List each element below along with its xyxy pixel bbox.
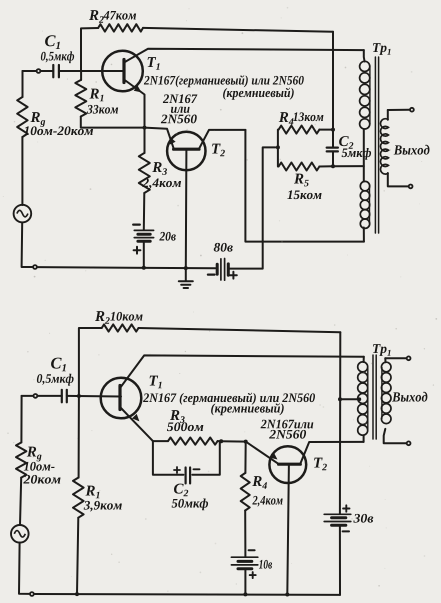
wire: terminal to C1	[41, 70, 53, 72]
node: T1 emitter / R1 / R3 / T2 junction	[143, 126, 147, 130]
label 80v minus	[208, 274, 215, 276]
wire: R3 node to R4 node	[221, 440, 246, 442]
wire: tap from C2/R5 node to transformer primary	[333, 165, 364, 167]
label C1	[45, 35, 60, 49]
wire: terminal to C1 (bottom)	[38, 395, 62, 397]
label Vykhod (top)	[394, 145, 430, 155]
resistor R5 15kom	[279, 163, 320, 171]
ground symbol (top circuit)	[185, 268, 187, 281]
label 20v value	[159, 232, 175, 241]
transformer Tr1 (bottom) core	[372, 355, 374, 439]
transistor T1 (top) circle	[102, 51, 143, 92]
label C2 (top)	[339, 136, 353, 149]
transistor T2 base ground line	[185, 149, 188, 268]
label 20v plus	[134, 247, 141, 254]
label C1 (bottom)	[51, 358, 66, 372]
transistor T2 collector lead to vertical	[199, 130, 246, 149]
transistor T2 base bar (horizontal)	[174, 148, 199, 151]
label C1 value 0,5mkf	[41, 51, 74, 63]
transistor T1 (bottom) base bar	[118, 386, 121, 410]
wire: bottom rail of top circuit	[38, 267, 216, 268]
label R1 (bottom)	[85, 486, 99, 499]
label R4 value 2,4kom (bottom)	[252, 496, 282, 507]
label C2 minus (bottom)	[194, 468, 200, 470]
terminal: output top (top circuit)	[410, 108, 414, 112]
transistor T1 collector lead to rail	[124, 49, 364, 63]
label 30v minus	[343, 530, 349, 532]
battery B1 20v plates	[134, 229, 153, 231]
capacitor C1 (bottom) plates	[61, 390, 63, 403]
node: R4/C2/R2 junction	[331, 128, 335, 132]
node: R4/R5 left mid junction	[276, 145, 280, 149]
label C2 plus (bottom)	[174, 467, 180, 473]
label T2 block ili	[171, 107, 190, 113]
label R4 (top)	[279, 112, 294, 125]
wire: left column top corner down to Rg	[22, 71, 24, 97]
label Rg	[30, 112, 45, 127]
wire: tap to transformer primary (bottom)	[340, 398, 359, 400]
label T1 (top)	[148, 57, 160, 70]
terminal: bottom rail (bottom circuit)	[30, 592, 34, 596]
label R3 (top)	[152, 162, 167, 175]
transistor T1 (bottom) collector lead to rail	[120, 355, 364, 388]
resistor R2 47kom rail + zigzag	[81, 28, 98, 71]
label 10v value	[259, 560, 272, 569]
battery B4 30v plates	[324, 513, 351, 515]
transformer Tr1 (top) core	[374, 57, 376, 233]
wire: R2 right vertical down to R4 node	[332, 32, 334, 130]
label T2 (bottom)	[314, 458, 327, 471]
label 30v plus	[343, 505, 349, 511]
node: 20v battery at rail	[142, 266, 146, 270]
node: 10v battery at rail	[243, 592, 247, 596]
label 20v minus	[133, 224, 140, 226]
label R1 value 3,9kom	[84, 501, 122, 512]
label 80v plus	[230, 272, 237, 279]
transistor T2 (top) circle	[167, 132, 205, 170]
wire: R4/R5 left connector	[277, 130, 279, 167]
wire: secondary top lead to terminal	[388, 109, 410, 111]
transformer Tr1 (top) primary connector with tap	[363, 130, 365, 182]
label 10v minus	[249, 549, 255, 551]
label R3 value 500om	[167, 422, 203, 431]
node: tap at primary winding	[358, 397, 362, 401]
transformer Tr1 (top) secondary winding	[387, 110, 389, 120]
resistor R2 10kom rail (bottom)	[79, 328, 102, 396]
label T1 type line1 (bottom)	[143, 393, 315, 405]
label C2 value 50mkf	[172, 498, 208, 510]
label 80v value	[214, 243, 233, 252]
label T2 (top)	[212, 144, 225, 157]
transformer Tr1 (top) primary lower winding	[369, 186, 371, 224]
wire: 80v battery plus up to R4/R5 node	[228, 147, 275, 268]
wire: AC source to bottom rail corner	[19, 543, 29, 594]
transistor T2 (bottom) collector lead	[300, 442, 364, 464]
wire: secondary top lead to terminal (bottom)	[385, 357, 406, 359]
node: R5/C2 junction	[331, 164, 335, 168]
transistor T1 (bottom) circle	[101, 378, 142, 419]
wire: 10v battery to rail	[244, 569, 246, 595]
transformer Tr1 (top) primary upper winding	[363, 50, 366, 61]
transistor T2 (bottom) circle	[269, 446, 306, 483]
terminal: bottom-left on ground rail (top circuit)	[33, 265, 37, 269]
label R1 value 33kom	[87, 105, 118, 114]
label R2 (bottom)	[95, 311, 110, 324]
transistor T2 (bottom) base bar (horizontal)	[279, 463, 301, 466]
label R1	[89, 89, 103, 102]
label R2 value 47kom	[103, 11, 136, 20]
label Tr1 (top)	[373, 43, 391, 55]
terminal: output top (bottom circuit)	[407, 356, 411, 360]
transistor T2 (bottom) emitter lead with arrow (PNP)	[246, 442, 279, 465]
wire: input lead to terminal (top circuit)	[23, 70, 36, 72]
terminal: output bottom (bottom circuit)	[407, 441, 411, 445]
transistor T1 base bar	[122, 60, 125, 83]
capacitor C2 50mkf loop (bottom)	[153, 441, 184, 475]
label R2	[89, 10, 104, 23]
transformer Tr1 (bottom) primary winding	[363, 357, 365, 362]
resistor R4 13kom	[279, 126, 320, 134]
terminal: output bottom (top circuit)	[409, 185, 413, 189]
transistor T1 (bottom) emitter lead with arrow	[120, 407, 153, 441]
resistor R1 33kom (base bias)	[80, 71, 82, 80]
label R5 value 15kom	[287, 190, 321, 199]
label T2 block 2N560	[161, 115, 197, 124]
label C1 value (bottom)	[37, 374, 74, 386]
AC source G2 (bottom signal generator)	[11, 525, 29, 543]
label Rg value 10om-20kom	[24, 126, 93, 135]
label Vykhod (bottom)	[392, 392, 427, 402]
resistor R3 2,4kom (top)	[144, 128, 146, 153]
battery B3 10v plates	[231, 556, 257, 558]
wire: Rg to AC source (bottom)	[20, 478, 21, 525]
capacitor C1 (0,5mkf) plates	[52, 65, 54, 77]
wire: T2 collector down and right to transformer primary bottom	[245, 130, 364, 242]
transistor T2 (bottom) base line to rail	[287, 464, 289, 594]
capacitor C2 5mkf (top)	[332, 130, 334, 148]
label Rg value line1	[24, 462, 55, 471]
label R3 (bottom)	[170, 410, 185, 423]
label Rg value line2	[23, 475, 60, 484]
node: R3 right / C2 junction	[219, 439, 223, 443]
label C2 value 5mkf	[342, 148, 371, 160]
transistor T1 emitter lead with arrow	[124, 80, 145, 128]
wire: 30v supply vertical (rail corner to battery)	[339, 332, 341, 514]
label R3 value 2,4kom	[142, 178, 181, 189]
node: R4 top junction	[244, 440, 248, 444]
wire: Rg to AC source	[21, 137, 23, 205]
label Rg (bottom)	[27, 447, 42, 462]
wire: left column corner to Rg (bottom)	[20, 396, 22, 443]
wire: 30v battery to bottom rail corner	[339, 525, 341, 595]
terminal: input top-left	[37, 69, 41, 73]
label 30v value	[353, 514, 373, 523]
wire: input lead to terminal (bottom circuit)	[22, 395, 33, 397]
node: C1/R1/R2 base junction (bottom)	[77, 394, 81, 398]
resistor R3 500om (bottom)	[153, 440, 168, 442]
wire: C1 to T1 base	[59, 70, 123, 72]
resistor Rg (top) zigzag	[17, 97, 27, 137]
label T1 (bottom)	[150, 376, 162, 389]
label C2 (bottom)	[174, 484, 188, 497]
wire: bottom rail (bottom circuit)	[35, 593, 341, 596]
label 10v plus	[250, 572, 256, 578]
node: T2 base at rail	[285, 593, 289, 597]
node: R1 at bottom rail	[75, 592, 79, 596]
label Tr1 (bottom)	[373, 344, 391, 356]
AC source G1 (top signal generator)	[14, 205, 32, 223]
transistor T2 emitter lead with arrow (to T1 emitter node)	[145, 128, 174, 150]
label T1 type line2 (bottom)	[211, 403, 284, 415]
resistor R4 2,4kom (bottom)	[244, 442, 246, 473]
terminal: input bottom circuit	[34, 394, 38, 398]
node: supply tap junction	[338, 397, 342, 401]
resistor Rg (bottom) zigzag	[16, 443, 26, 478]
label R4 (bottom)	[252, 476, 267, 489]
wire: 20v battery to rail	[143, 241, 145, 268]
wire: C1 to T1 base (bottom)	[67, 395, 121, 398]
label R5 (top)	[294, 174, 309, 187]
label T1 type line2	[223, 88, 294, 100]
label T2 block 2N167	[163, 94, 198, 103]
label T2 type line2 (bottom)	[269, 430, 306, 439]
transformer Tr1 (bottom) secondary winding	[384, 358, 386, 362]
resistor R1 3,9kom (bottom)	[78, 396, 80, 478]
battery B2 80v plates (horizontal)	[216, 264, 219, 274]
label R2 value 10kom	[110, 312, 142, 321]
label T1 type line1	[144, 75, 304, 87]
label T2 type line1 (bottom)	[261, 420, 314, 429]
node: T2 ground line at rail	[184, 266, 188, 270]
wire: AC source to bottom-left corner, bottom rail start	[22, 222, 33, 267]
label R4 value 13kom	[293, 112, 323, 121]
